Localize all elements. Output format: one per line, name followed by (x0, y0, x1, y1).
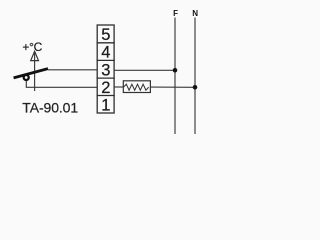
svg-text:4: 4 (101, 44, 110, 62)
svg-text:2: 2 (101, 79, 110, 97)
svg-text:5: 5 (101, 26, 110, 44)
svg-text:3: 3 (101, 61, 110, 79)
svg-text:N: N (192, 9, 198, 18)
svg-text:TA-90.01: TA-90.01 (22, 99, 78, 115)
svg-text:+°C: +°C (22, 40, 42, 54)
svg-text:1: 1 (101, 96, 110, 114)
svg-text:F: F (173, 9, 178, 18)
